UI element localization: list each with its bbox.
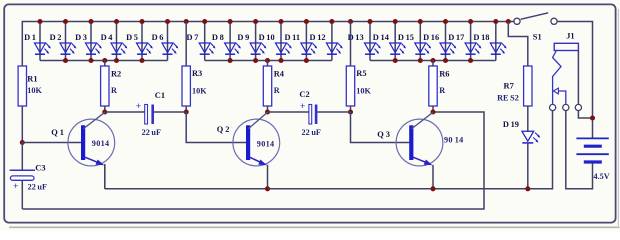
node top rail junction R5 <box>348 19 353 24</box>
node top rail junction R3 <box>184 19 189 24</box>
resistor R3 <box>182 66 190 106</box>
svg-text:R3: R3 <box>192 69 202 78</box>
LED D1 <box>35 22 51 61</box>
wire top supply rail <box>22 21 513 23</box>
jack J1 spring contact <box>553 51 561 105</box>
LED D8 <box>225 22 241 61</box>
resistor R5 <box>346 66 354 106</box>
svg-text:D 7: D 7 <box>186 33 198 42</box>
node top rail junction D8 <box>228 19 233 24</box>
jack J1 arrow to pin2 wire <box>558 91 565 104</box>
switch S1 left contact <box>514 18 520 24</box>
wire bottom feedback rail <box>22 112 484 209</box>
svg-text:D 9: D 9 <box>237 33 249 42</box>
svg-text:RE S2: RE S2 <box>497 94 519 103</box>
wire top rail S1 to battery corner <box>557 22 592 138</box>
svg-text:10K: 10K <box>192 87 207 96</box>
LED D3 <box>86 22 102 61</box>
wire J1 pin3 to battery node <box>578 111 592 118</box>
wire C3 bottom to ground rail <box>21 180 23 209</box>
svg-text:C3: C3 <box>35 164 45 173</box>
border shadow bottom <box>9 226 620 228</box>
node top rail junction D14 <box>393 19 398 24</box>
node top rail junction D5 <box>139 19 144 24</box>
svg-text:Q 1: Q 1 <box>51 128 64 137</box>
node battery positive junction <box>590 115 595 120</box>
svg-text:D 6: D 6 <box>152 33 164 42</box>
wire J1 pin2 to battery negative <box>566 111 593 189</box>
node top rail junction D17 <box>468 19 473 24</box>
wire D19 cathode to emitter rail <box>527 143 529 189</box>
resistor R6 <box>429 66 437 106</box>
LED D12 <box>326 22 342 61</box>
node cathode rail junction D5 <box>139 58 144 63</box>
svg-text:R1: R1 <box>27 75 37 84</box>
node top rail junction D3 <box>88 19 93 24</box>
node top rail junction D10 <box>278 19 283 24</box>
transistor Q2 <box>233 112 280 189</box>
capacitor C3 top plate <box>10 169 35 171</box>
switch S1 right contact <box>551 18 557 24</box>
wire left vertical (top rail to R1) <box>21 21 23 67</box>
node top rail junction D16 <box>443 19 448 24</box>
wire R2 top stub <box>104 61 106 67</box>
battery positive plate 2 <box>576 153 608 155</box>
node cathode rail junction D2 <box>63 58 68 63</box>
node top rail junction D4 <box>114 19 119 24</box>
LED D14 <box>390 22 406 61</box>
LED D17 <box>465 22 481 61</box>
svg-text:D 15: D 15 <box>398 33 414 42</box>
wire R1 to base node <box>21 106 23 143</box>
node cathode rail junction R2 <box>102 58 107 63</box>
LED D9 <box>250 22 266 61</box>
node top rail junction D11 <box>304 19 309 24</box>
node collector junction R4 <box>265 109 270 114</box>
node top rail junction D7 <box>202 19 207 24</box>
svg-text:D 4: D 4 <box>101 33 114 42</box>
wire R3 node to Q2 base <box>186 112 247 143</box>
node cathode rail junction R4 <box>265 58 270 63</box>
resistor R1 <box>18 66 26 106</box>
svg-text:10K: 10K <box>27 86 42 95</box>
wire C2 to R5 node <box>317 111 350 113</box>
svg-text:+: + <box>136 102 141 112</box>
wire coupling Q1 collector to C1 <box>105 111 145 113</box>
svg-text:22 uF: 22 uF <box>302 128 321 137</box>
LED D5 <box>137 22 153 61</box>
battery negative plate 1 <box>584 145 602 148</box>
node top rail junction D6 <box>165 19 170 24</box>
svg-text:C2: C2 <box>299 90 309 99</box>
wire emitter rail <box>104 164 106 189</box>
svg-text:Q 3: Q 3 <box>377 130 390 139</box>
node cathode rail junction D17 <box>468 58 473 63</box>
svg-text:22 uF: 22 uF <box>28 182 47 191</box>
resistor R4 <box>263 66 271 106</box>
svg-text:D 11: D 11 <box>284 33 300 42</box>
capacitor C2 <box>309 105 318 125</box>
node cathode rail junction D14 <box>393 58 398 63</box>
svg-text:9014: 9014 <box>92 139 110 148</box>
wire R6 bottom stub <box>432 106 434 113</box>
LED D4 <box>111 22 127 61</box>
svg-text:C1: C1 <box>155 91 165 100</box>
switch S1 lever <box>521 13 549 19</box>
svg-text:9014: 9014 <box>257 139 275 148</box>
resistor R7 <box>524 66 532 106</box>
LED D6 <box>162 22 178 61</box>
node cathode rail junction D15 <box>418 58 423 63</box>
LED D16 <box>440 22 456 61</box>
node base junction R3 <box>184 109 189 114</box>
wire R5 top stub <box>350 22 352 67</box>
node Q1 base junction <box>20 140 25 145</box>
node cathode rail junction D16 <box>443 58 448 63</box>
svg-text:4.5V: 4.5V <box>594 172 610 181</box>
svg-text:D 17: D 17 <box>448 33 464 42</box>
resistor R2 <box>101 66 109 106</box>
svg-text:D 8: D 8 <box>212 33 224 42</box>
transistor Q3 <box>396 112 443 189</box>
LED D15 <box>415 22 431 61</box>
jack J1 pin 2 contact <box>563 104 569 110</box>
battery positive plate 1 <box>576 137 608 139</box>
svg-text:10K: 10K <box>356 87 371 96</box>
svg-text:D 14: D 14 <box>373 33 390 42</box>
node top rail junction D12 <box>329 19 334 24</box>
wire LED group 2 cathode rail <box>205 60 332 62</box>
wire LED group 3 cathode rail <box>370 60 496 62</box>
node cathode rail junction D11 <box>304 58 309 63</box>
wire base node to C3 top <box>21 143 23 171</box>
svg-text:R4: R4 <box>274 69 285 78</box>
node cathode rail junction R6 <box>430 58 435 63</box>
svg-text:D 2: D 2 <box>50 33 62 42</box>
wire R3 top stub <box>185 22 187 67</box>
svg-text:D 12: D 12 <box>309 33 325 42</box>
transistor Q1 <box>68 112 115 189</box>
svg-text:+: + <box>13 182 18 192</box>
jack J1 body <box>554 43 578 50</box>
LED D13 <box>365 22 381 61</box>
node collector junction R2 <box>102 109 107 114</box>
wire R4 bottom stub <box>267 106 269 113</box>
wire R5 bottom stub <box>350 106 352 113</box>
wire R6 top stub <box>432 61 434 67</box>
svg-text:D 18: D 18 <box>473 33 489 42</box>
svg-text:90 14: 90 14 <box>444 136 464 145</box>
wire R4 top stub <box>267 61 269 67</box>
jack J1 right pin wire <box>577 51 579 105</box>
svg-text:D 16: D 16 <box>423 33 439 42</box>
node cathode rail junction D4 <box>114 58 119 63</box>
LED D18 <box>490 22 506 61</box>
wire R2 bottom stub <box>104 106 106 113</box>
capacitor C3 bottom plate <box>10 176 34 180</box>
jack J1 pin 1 contact <box>550 104 556 110</box>
node Q3 emitter junction <box>430 186 435 191</box>
node top rail junction D13 <box>367 19 372 24</box>
node emitter rail junction D19 <box>525 186 530 191</box>
node Q2 emitter junction <box>265 186 270 191</box>
node top rail junction D2 <box>63 19 68 24</box>
svg-text:R: R <box>111 86 117 95</box>
node top rail junction D18 <box>493 19 498 24</box>
svg-text:+: + <box>300 102 305 112</box>
node collector junction R6 <box>430 109 435 114</box>
svg-text:D 1: D 1 <box>24 33 36 42</box>
svg-text:D 3: D 3 <box>75 33 87 42</box>
node cathode rail junction D3 <box>88 58 93 63</box>
wire R7 to D19 <box>527 106 529 132</box>
svg-text:R: R <box>274 86 280 95</box>
node cathode rail junction D8 <box>228 58 233 63</box>
LED D2 <box>60 22 76 61</box>
LED D7 <box>199 22 215 61</box>
svg-text:R7: R7 <box>504 82 514 91</box>
wire R3 bottom stub <box>185 106 187 113</box>
svg-text:Q 2: Q 2 <box>217 125 230 134</box>
capacitor C1 <box>145 105 154 125</box>
svg-text:R: R <box>439 86 445 95</box>
wire coupling Q2 collector to C2 <box>268 111 309 113</box>
battery negative plate 2 <box>584 160 602 163</box>
node cathode rail junction D10 <box>278 58 283 63</box>
wire R5 node to Q3 base <box>351 112 413 143</box>
wire LED group 1 cathode rail <box>40 60 168 62</box>
jack J1 switch arrow <box>553 88 558 94</box>
node top rail junction R7 <box>506 19 511 24</box>
svg-text:R2: R2 <box>111 69 121 78</box>
svg-text:R6: R6 <box>439 69 449 78</box>
svg-text:22 uF: 22 uF <box>142 128 161 137</box>
svg-text:D 5: D 5 <box>126 33 138 42</box>
svg-text:D 10: D 10 <box>259 33 275 42</box>
node top rail junction D15 <box>418 19 423 24</box>
wire top rail to R7 <box>508 22 528 67</box>
jack J1 pin 3 contact <box>575 104 581 110</box>
wire Q1 base <box>22 142 85 144</box>
LED D10 <box>276 22 292 61</box>
node top rail junction D9 <box>253 19 258 24</box>
LED D19 <box>522 131 540 143</box>
svg-text:S1: S1 <box>533 33 542 42</box>
svg-text:J1: J1 <box>566 32 574 41</box>
LED D11 <box>301 22 317 61</box>
svg-text:D 19: D 19 <box>503 120 519 129</box>
node cathode rail junction D9 <box>253 58 258 63</box>
svg-text:R5: R5 <box>356 69 366 78</box>
node top rail junction D1 <box>37 19 42 24</box>
wire emitter rail horizontal <box>105 111 553 189</box>
node base junction R5 <box>348 109 353 114</box>
border shadow right <box>617 9 619 226</box>
wire C1 to R3 node <box>154 111 186 113</box>
